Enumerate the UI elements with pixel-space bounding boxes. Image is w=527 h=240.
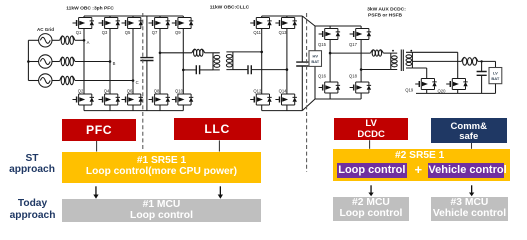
svg-text:Q9: Q9 bbox=[175, 30, 181, 35]
transistor Q6 bbox=[122, 94, 144, 105]
transistor Q2 bbox=[73, 94, 95, 105]
wire AC stub phase B bbox=[28, 61, 38, 63]
wire V3 to L3 bbox=[52, 80, 60, 82]
wire leg Q15/Q16 bbox=[329, 26, 331, 99]
inductor L2 bbox=[60, 57, 75, 66]
svg-text:3kW AUX DCDC:: 3kW AUX DCDC: bbox=[367, 7, 406, 13]
wire phase A bbox=[75, 39, 84, 41]
wire leg Q9/Q10 bbox=[182, 16, 184, 111]
svg-text:Q2: Q2 bbox=[78, 89, 84, 94]
wire Q17 midpoint to T2 bbox=[361, 69, 391, 71]
block LLC bbox=[174, 118, 261, 140]
node Q7 midpoint bbox=[159, 52, 162, 55]
transistor Q12 bbox=[250, 94, 272, 105]
svg-text:Q19: Q19 bbox=[405, 87, 414, 92]
wire LV BAT bottom bbox=[495, 84, 497, 94]
svg-text:Q8: Q8 bbox=[154, 89, 160, 94]
inductor L1 bbox=[60, 36, 75, 45]
capacitor DC link bbox=[140, 16, 153, 111]
wire V1 to L1 bbox=[52, 39, 60, 41]
wire phase B bbox=[75, 61, 110, 63]
wire AUX bottom bus bbox=[315, 98, 361, 100]
wire T2 center tap bbox=[412, 60, 461, 62]
wire diagonal top to AUX bbox=[302, 16, 315, 26]
capacitor Cr resonant bbox=[196, 65, 199, 74]
svg-text:11kW OBC :3ph PFC: 11kW OBC :3ph PFC bbox=[66, 6, 114, 12]
label plus sign bbox=[412, 162, 424, 178]
capacitor Co output bbox=[477, 61, 487, 93]
wire T1 secondary bottom bbox=[233, 69, 248, 71]
wire T1 secondary top bbox=[233, 51, 262, 53]
wire DC top bus secondary bbox=[262, 15, 303, 17]
wire DC bottom bus primary bbox=[84, 110, 183, 112]
transistor Q10 bbox=[172, 94, 194, 105]
inductor La series bbox=[371, 50, 384, 57]
node output cap junction bbox=[480, 60, 482, 62]
node Q17 midpoint bbox=[360, 68, 363, 71]
wire leg Q1/Q2 bbox=[83, 16, 85, 111]
wire LV bottom rail bbox=[416, 92, 496, 94]
svg-text:Q15: Q15 bbox=[318, 42, 327, 47]
transformer T2 primary bbox=[391, 53, 397, 69]
connector PFC to SR5E1 bbox=[96, 141, 98, 152]
transistor Q14 bbox=[275, 94, 297, 105]
transistor Q17 bbox=[350, 29, 372, 40]
wire LLC lower bbox=[183, 69, 196, 71]
inductor Lr resonant bbox=[192, 49, 205, 56]
inductor Lo output bbox=[462, 57, 478, 65]
wire T2 secondary top bbox=[412, 52, 457, 78]
AC source V3 bbox=[39, 74, 52, 87]
wire Q15 midpoint to La bbox=[330, 52, 370, 54]
svg-text:Q6: Q6 bbox=[127, 89, 133, 94]
block MCU2 gray bbox=[333, 197, 409, 221]
transformer T2 dot primary bbox=[392, 50, 394, 52]
block SR5E1 number2 bbox=[333, 149, 511, 181]
wire leg Q11/Q12 bbox=[261, 16, 263, 111]
wire leg Q13/Q14 bbox=[286, 16, 288, 111]
arrow SR5E1 to MCU1 left bbox=[93, 186, 98, 199]
transistor Q19 bbox=[415, 79, 437, 90]
transistor Q16 bbox=[319, 82, 341, 93]
transformer T2 secondary bbox=[406, 52, 412, 68]
svg-text:Q4: Q4 bbox=[104, 89, 110, 94]
svg-text:Q10: Q10 bbox=[175, 89, 184, 94]
svg-text:Q12: Q12 bbox=[253, 89, 262, 94]
svg-text:Q11: Q11 bbox=[253, 30, 261, 35]
svg-text:BAT: BAT bbox=[311, 59, 319, 64]
svg-text:LV: LV bbox=[493, 70, 498, 75]
wire AC stub phase A bbox=[28, 39, 38, 41]
svg-text:B: B bbox=[113, 61, 116, 66]
wire leg Q17/Q18 bbox=[360, 26, 362, 99]
wire phase C bbox=[75, 80, 133, 82]
battery HV BAT box bbox=[309, 51, 322, 67]
node Q13 midpoint bbox=[286, 68, 289, 71]
svg-text:Q16: Q16 bbox=[318, 74, 327, 79]
transistor Q3 bbox=[99, 18, 121, 29]
capacitor Cs secondary bbox=[248, 65, 251, 74]
node Q15 midpoint bbox=[329, 52, 332, 55]
wire AUX left rail upper bbox=[314, 26, 316, 51]
svg-text:Q5: Q5 bbox=[125, 30, 131, 35]
block PFC bbox=[62, 119, 136, 142]
transformer T2 core bbox=[401, 50, 403, 72]
connector LV DCDC to SR5E1 bbox=[369, 140, 371, 149]
block SR5E1 number1 bbox=[62, 152, 260, 184]
block LV DCDC bbox=[334, 118, 408, 141]
divider dashed line 2 bbox=[306, 13, 308, 172]
svg-text:11kW OBC:CLLC: 11kW OBC:CLLC bbox=[210, 4, 250, 10]
svg-text:BAT: BAT bbox=[491, 76, 499, 81]
divider dashed line 1 bbox=[142, 13, 144, 150]
wire Lo to LV BAT bbox=[478, 61, 496, 67]
block MCU3 gray bbox=[431, 197, 508, 221]
wire Cs to Q13 midpoint bbox=[251, 69, 287, 71]
transistor Q11 bbox=[250, 18, 272, 29]
connector Comm safe to SR5E1 bbox=[471, 143, 473, 149]
wire leg Q3/Q4 bbox=[109, 16, 111, 111]
wire Q20 source bbox=[457, 90, 459, 94]
transformer T2 dot secondary bbox=[410, 50, 412, 52]
svg-text:Q13: Q13 bbox=[279, 30, 288, 35]
transistor Q18 bbox=[350, 82, 372, 93]
wire AC stub phase C bbox=[28, 80, 38, 82]
wire V2 to L2 bbox=[52, 61, 60, 63]
wire AC left bus bbox=[27, 40, 29, 80]
label Today approach bbox=[6, 198, 59, 221]
transistor Q7 bbox=[149, 18, 171, 29]
transistor Q1 bbox=[73, 18, 95, 29]
wire DC top bus primary bbox=[84, 15, 183, 17]
svg-text:Q1: Q1 bbox=[76, 30, 82, 35]
svg-text:AC Grid: AC Grid bbox=[37, 27, 54, 32]
transformer T1 primary bbox=[213, 53, 220, 70]
svg-text:Q7: Q7 bbox=[152, 30, 158, 35]
arrow SR5E1 to MCU1 right bbox=[218, 186, 223, 199]
inductor L3 bbox=[60, 76, 75, 85]
wire diagonal bottom to AUX bbox=[302, 99, 315, 111]
connector LLC to SR5E1 bbox=[218, 140, 220, 151]
capacitor LLC output bbox=[296, 16, 308, 111]
node C bbox=[132, 79, 135, 82]
wire T2 secondary bottom bbox=[412, 68, 426, 79]
wire LLC upper bbox=[160, 52, 192, 54]
AC source V1 bbox=[39, 34, 52, 47]
wire DC bottom bus secondary bbox=[262, 110, 303, 112]
transistor Q15 bbox=[319, 29, 341, 40]
transistor Q5 bbox=[122, 18, 144, 29]
node Q9 midpoint bbox=[182, 69, 185, 72]
transistor Q9 bbox=[172, 18, 194, 29]
transformer T1 secondary bbox=[226, 52, 233, 70]
svg-text:Q14: Q14 bbox=[279, 89, 288, 94]
svg-text:Q3: Q3 bbox=[102, 30, 108, 35]
node Q11 midpoint bbox=[260, 51, 263, 54]
svg-text:A: A bbox=[87, 40, 90, 45]
wire leg Q5/Q6 bbox=[132, 16, 134, 111]
node A bbox=[83, 39, 86, 42]
block MCU1 gray bbox=[62, 199, 260, 222]
block Loop control purple bbox=[337, 163, 407, 179]
svg-text:C: C bbox=[136, 80, 139, 85]
arrow SR5E1 to MCU2 bbox=[368, 185, 373, 196]
transistor Q4 bbox=[99, 94, 121, 105]
transistor Q13 bbox=[275, 18, 297, 29]
block Comm and safe bbox=[431, 118, 508, 143]
node AC bus junction bbox=[27, 60, 30, 63]
block Vehicle control purple bbox=[428, 163, 504, 179]
wire leg Q7/Q8 bbox=[159, 16, 161, 111]
svg-text:Q20: Q20 bbox=[438, 88, 447, 93]
svg-text:Q18: Q18 bbox=[349, 74, 358, 79]
wire Cr to T1 bbox=[200, 69, 213, 71]
wire AUX left rail lower bbox=[314, 66, 316, 99]
transistor Q8 bbox=[149, 94, 171, 105]
svg-text:PSFB or HSFB: PSFB or HSFB bbox=[368, 12, 402, 18]
wire La to T2 bbox=[383, 52, 391, 54]
label ST approach bbox=[6, 153, 58, 176]
arrow SR5E1 to MCU3 bbox=[469, 185, 474, 196]
battery LV BAT box bbox=[489, 68, 502, 84]
transistor Q20 bbox=[446, 79, 468, 90]
node B bbox=[109, 60, 112, 63]
wire Q19 source bbox=[426, 90, 428, 94]
svg-text:Q17: Q17 bbox=[349, 42, 358, 47]
AC source V2 bbox=[39, 55, 52, 68]
wire Lr to T1 bbox=[205, 52, 213, 54]
svg-text:HV: HV bbox=[313, 54, 319, 59]
wire AUX top bus bbox=[315, 25, 361, 27]
